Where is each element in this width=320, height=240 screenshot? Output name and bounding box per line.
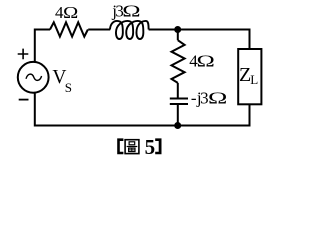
- wire node A to top-right corner down to ZL: [178, 30, 250, 49]
- source VS circle: [18, 62, 49, 93]
- inductor L1 coil: [110, 21, 149, 39]
- load ZL box: [238, 49, 261, 104]
- wire between resistor and inductor: [88, 29, 110, 31]
- resistor R1 4ohm horizontal: [50, 22, 88, 36]
- caption right bracket: [155, 138, 161, 154]
- svg-text:Ω: Ω: [196, 51, 214, 70]
- wire resistor R2 to capacitor C1: [177, 83, 179, 98]
- plus sign: [18, 49, 29, 60]
- wire ZL bottom to bottom-right corner: [178, 105, 250, 126]
- minus sign: [19, 99, 29, 101]
- capacitor C1 top plate: [170, 98, 188, 100]
- caption CJK figure glyph: [125, 140, 139, 154]
- svg-text:S: S: [65, 80, 72, 95]
- capacitor C1 bottom plate: [170, 103, 188, 105]
- svg-text:Ω: Ω: [63, 3, 78, 22]
- caption left bracket: [117, 138, 123, 154]
- svg-text:Ω: Ω: [122, 1, 140, 20]
- wire capacitor to node B: [177, 104, 179, 126]
- node A dot top: [174, 26, 181, 33]
- wire inductor to node A: [149, 29, 175, 31]
- wire node A down to resistor R2: [177, 30, 179, 41]
- sine symbol inside source: [26, 74, 42, 80]
- node B dot bottom: [174, 122, 181, 129]
- wire top-left corner down to source top: [34, 29, 36, 63]
- svg-text:5: 5: [145, 135, 156, 159]
- wire top-left horizontal: [35, 29, 50, 31]
- svg-text:L: L: [250, 72, 258, 87]
- svg-text:Ω: Ω: [208, 88, 227, 107]
- resistor R2 4ohm vertical: [172, 40, 185, 83]
- wire bottom rail to bottom-left corner up: [35, 93, 178, 125]
